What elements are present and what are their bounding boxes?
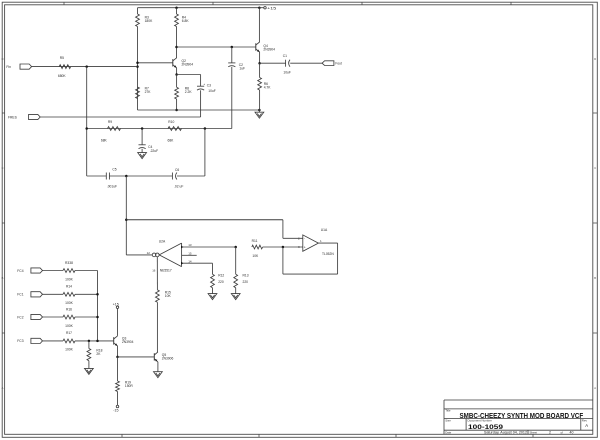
- svg-text:R13: R13: [243, 274, 249, 278]
- svg-text:27K: 27K: [145, 90, 152, 94]
- svg-text:R16: R16: [66, 307, 72, 311]
- svg-text:1uF: 1uF: [239, 66, 245, 70]
- svg-text:FC1: FC1: [17, 293, 23, 297]
- svg-text:R11: R11: [252, 239, 258, 243]
- svg-text:100K: 100K: [65, 277, 74, 281]
- svg-text:of: of: [561, 430, 564, 434]
- svg-text:C5: C5: [112, 168, 116, 172]
- svg-text:FRES: FRES: [8, 115, 18, 119]
- svg-text:U2A: U2A: [159, 239, 166, 243]
- svg-text:100K: 100K: [65, 348, 74, 352]
- svg-text:220: 220: [243, 280, 249, 284]
- svg-text:B: B: [2, 276, 4, 280]
- svg-text:R5: R5: [60, 56, 64, 60]
- svg-text:A: A: [2, 386, 4, 390]
- svg-text:100K: 100K: [65, 324, 74, 328]
- svg-text:12: 12: [147, 251, 151, 255]
- svg-text:.22uF: .22uF: [150, 149, 158, 153]
- svg-text:C: C: [2, 166, 4, 170]
- svg-text:100K: 100K: [65, 301, 74, 305]
- svg-text:6.8K: 6.8K: [182, 19, 190, 23]
- svg-text:A: A: [594, 386, 596, 390]
- svg-text:2N3906: 2N3906: [162, 356, 174, 360]
- svg-text:R10: R10: [168, 120, 174, 124]
- svg-text:68K: 68K: [168, 138, 175, 142]
- svg-text:14: 14: [188, 259, 192, 263]
- svg-text:+: +: [203, 82, 205, 86]
- svg-text:-15: -15: [113, 409, 118, 413]
- svg-text:C6: C6: [175, 168, 179, 172]
- svg-text:D: D: [594, 57, 596, 61]
- svg-text:R12: R12: [218, 274, 224, 278]
- svg-text:FC4: FC4: [17, 269, 23, 273]
- svg-text:68K: 68K: [101, 138, 108, 142]
- svg-text:NE5517: NE5517: [160, 269, 172, 273]
- svg-text:TL052N: TL052N: [322, 252, 334, 256]
- svg-text:C3: C3: [207, 83, 211, 87]
- svg-text:13: 13: [188, 243, 192, 247]
- svg-text:C: C: [594, 166, 596, 170]
- svg-text:Document Number: Document Number: [468, 419, 492, 423]
- svg-text:B: B: [594, 276, 596, 280]
- svg-text:FC3: FC3: [17, 339, 23, 343]
- svg-text:2N3904: 2N3904: [263, 48, 275, 52]
- svg-text:10uF: 10uF: [283, 71, 291, 75]
- svg-text:-: -: [304, 237, 305, 241]
- svg-text:.02 uF: .02 uF: [174, 185, 183, 189]
- svg-text:2N3904: 2N3904: [182, 63, 194, 67]
- svg-text:+15: +15: [113, 302, 119, 306]
- svg-text:2N3904: 2N3904: [122, 340, 134, 344]
- svg-text:40: 40: [570, 430, 574, 434]
- svg-text:4.7K: 4.7K: [264, 86, 272, 90]
- svg-text:U1A: U1A: [321, 228, 328, 232]
- svg-text:2.2K: 2.2K: [185, 90, 193, 94]
- svg-text:R9: R9: [108, 120, 112, 124]
- svg-text:+15: +15: [267, 5, 277, 10]
- svg-text:R338: R338: [65, 261, 73, 265]
- svg-text:Saturday, August 04, 2012: Saturday, August 04, 2012: [484, 430, 527, 434]
- svg-text:Sheet: Sheet: [530, 430, 538, 434]
- svg-text:220: 220: [218, 280, 224, 284]
- svg-text:A: A: [585, 423, 588, 428]
- svg-text:680K: 680K: [58, 74, 67, 78]
- svg-text:16: 16: [152, 268, 156, 272]
- svg-text:15: 15: [188, 252, 192, 256]
- svg-text:Title: Title: [445, 409, 451, 413]
- svg-text:Fin: Fin: [6, 65, 11, 69]
- svg-text:Fout: Fout: [335, 61, 341, 65]
- svg-text:Date: Date: [445, 430, 451, 434]
- svg-text:+: +: [304, 245, 306, 249]
- svg-text:C1: C1: [283, 54, 287, 58]
- svg-text:Size: Size: [445, 419, 451, 423]
- svg-text:180K: 180K: [145, 19, 154, 23]
- svg-text:D: D: [2, 57, 4, 61]
- svg-text:.001uF: .001uF: [107, 185, 117, 189]
- svg-text:10K: 10K: [165, 294, 172, 298]
- svg-text:R17: R17: [66, 331, 72, 335]
- svg-text:FC2: FC2: [17, 315, 23, 319]
- svg-text:10K: 10K: [252, 254, 259, 258]
- svg-text:10uF: 10uF: [208, 89, 216, 93]
- svg-text:R14: R14: [66, 285, 72, 289]
- svg-text:150R: 150R: [125, 384, 134, 388]
- svg-text:2: 2: [549, 430, 551, 434]
